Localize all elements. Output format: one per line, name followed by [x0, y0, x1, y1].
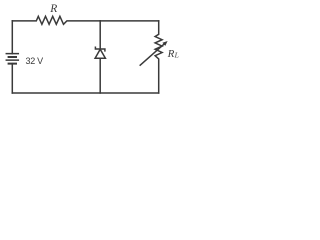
svg-text:RL: RL — [167, 48, 179, 60]
svg-text:R: R — [49, 3, 57, 15]
svg-text:32 V: 32 V — [26, 56, 44, 66]
